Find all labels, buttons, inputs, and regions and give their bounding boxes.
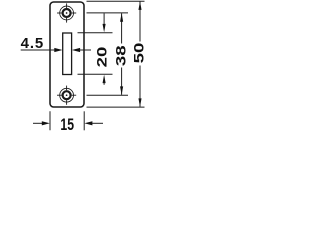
svg-text:50: 50 — [132, 43, 147, 64]
svg-text:20: 20 — [95, 47, 110, 68]
svg-text:4.5: 4.5 — [21, 35, 45, 52]
svg-text:38: 38 — [114, 45, 129, 66]
svg-text:15: 15 — [60, 116, 74, 134]
